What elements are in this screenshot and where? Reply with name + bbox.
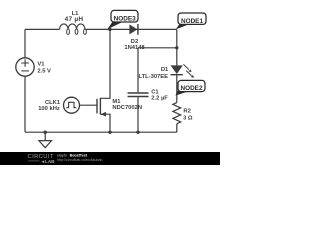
junction dot node1 C1 branch [175,46,178,49]
wire right vertical NODE1 to D1 [176,29,178,65]
svg-text:NDC7002N: NDC7002N [112,105,142,111]
footer circuitlab logo [28,154,56,164]
inductor L1 coil [60,24,85,30]
capacitor C1 top branch wire [137,48,139,93]
junction dot ground [44,131,47,134]
svg-text:D1: D1 [161,67,169,73]
wire bottom horizontal [25,131,177,133]
wire D1 to R2 [176,75,178,103]
clock CLK1 squarewave glyph [66,102,76,107]
svg-text:100 kHz: 100 kHz [38,106,60,112]
led D1 triangle [171,65,183,74]
svg-text:http://circuitlab.com/c6kubah: http://circuitlab.com/c6kubah [57,158,103,162]
mosfet M1 channel [99,98,101,115]
svg-text:CLK1: CLK1 [45,100,61,106]
mosfet M1 source arrow [100,112,106,117]
diode D2 cathode bar [137,24,139,35]
wire R2 to bottom [176,124,178,132]
wire left vertical to V1 [24,29,26,58]
svg-text:NODE1: NODE1 [181,18,203,25]
node label NODE1 [176,13,206,29]
mosfet M1 gate bar [96,99,98,114]
svg-text:2.2 µF: 2.2 µF [151,96,168,102]
svg-text:47 µH: 47 µH [65,16,84,23]
wire top left horizontal [25,28,60,30]
svg-text:LTL-307EE: LTL-307EE [138,74,168,80]
svg-text:R2: R2 [183,109,190,115]
svg-text:NODE2: NODE2 [180,85,202,92]
junction dot C1 bottom [136,131,139,134]
mosfet M1 source lead wire [100,114,110,132]
svg-text:1N4148: 1N4148 [124,45,145,51]
ground stub [44,132,46,140]
led D1 emission arrows [183,64,194,78]
svg-text:elaphi : BoostTest: elaphi : BoostTest [57,153,88,157]
svg-text:◄LAB: ◄LAB [41,159,56,164]
component labels [37,11,193,122]
resistor R2 zigzag [173,103,181,124]
led D1 cathode bar [171,74,183,76]
svg-text:3 Ω: 3 Ω [183,116,193,122]
capacitor C1 plate top [128,92,149,94]
clock source CLK1 circle [64,97,80,113]
node label NODE3 [107,10,138,29]
wire branch NODE1 to C1 [138,47,177,49]
footer bar [0,152,220,165]
V1 minus sign [21,70,29,72]
footer circuit title text [57,153,103,162]
junction dot node3 [108,28,111,31]
capacitor C1 bottom wire [137,97,139,132]
capacitor C1 plate bottom [128,96,149,98]
V1 plus sign [21,59,29,67]
ground triangle [39,141,52,148]
junction dot M1 source bottom [108,131,111,134]
wire V1 to bottom [24,76,26,132]
wire top mid horizontal [85,28,177,30]
node label NODE2 [175,80,205,95]
wire CLK1 to gate [80,104,98,106]
svg-text:V1: V1 [37,62,45,68]
svg-text:NODE3: NODE3 [114,16,136,23]
svg-text:2.5 V: 2.5 V [37,68,51,74]
diode D2 triangle [129,24,137,34]
voltage source V1 circle [16,58,34,76]
wire NODE3 vertical to M1 drain [100,29,110,98]
